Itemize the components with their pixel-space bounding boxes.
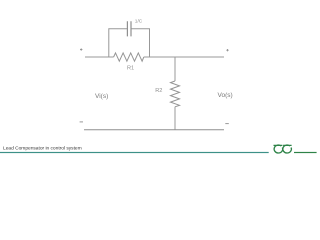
svg-text:Lead Compensator in control sy: Lead Compensator in control system xyxy=(3,145,82,151)
node minus (output -) xyxy=(225,123,229,125)
svg-text:1/C: 1/C xyxy=(135,18,143,24)
resistor R2 (shunt, vertical zigzag) xyxy=(171,81,180,107)
svg-text:R1: R1 xyxy=(127,66,134,72)
logo underline (green) xyxy=(294,152,317,153)
logo GeeksforGeeks (double G) xyxy=(274,145,292,153)
svg-text:Vo(s): Vo(s) xyxy=(218,92,233,99)
node plus (input +) xyxy=(80,48,82,50)
node plus (output +) xyxy=(226,49,228,51)
separator line (teal) xyxy=(0,152,269,153)
wire top (input to output, upper rail) xyxy=(85,56,224,58)
wire bottom (ground rail) xyxy=(84,129,224,131)
node junction / wire middle branch (upper) xyxy=(174,57,176,81)
svg-text:R2: R2 xyxy=(155,88,162,94)
wire capacitor branch (loop around R1) xyxy=(109,29,150,57)
node minus (input -) xyxy=(80,121,83,123)
wire middle branch (lower) xyxy=(174,107,176,130)
svg-text:Vi(s): Vi(s) xyxy=(95,93,108,100)
resistor R1 (series, horizontal zigzag) xyxy=(114,53,144,61)
capacitor C (plates) xyxy=(127,21,131,36)
